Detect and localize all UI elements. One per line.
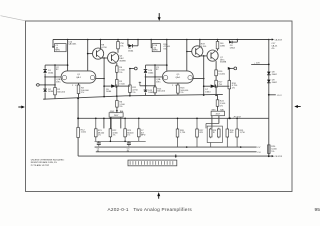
rail tap label	[229, 117, 231, 119]
wire clamp top channel 2	[146, 64, 167, 66]
wire left riser	[77, 98, 79, 127]
svg-text:MFD: MFD	[55, 50, 60, 52]
svg-text:5%: 5%	[120, 46, 123, 48]
right registration arrow	[294, 105, 300, 108]
wire bottom row bus	[95, 140, 146, 142]
bottom center registration arrow	[157, 192, 160, 199]
junction tick	[175, 154, 177, 158]
svg-text:DEC: DEC	[56, 81, 61, 83]
svg-text:3639B: 3639B	[220, 62, 227, 64]
svg-text:+ 10V: + 10V	[254, 63, 260, 65]
wire R9 to Q3 collector	[117, 49, 119, 53]
svg-text:1%: 1%	[232, 88, 235, 90]
resistor bottom row C7	[138, 118, 140, 129]
svg-text:1,750: 1,750	[180, 132, 186, 134]
svg-text:CA XXX: CA XXX	[275, 39, 283, 42]
capacitor C1	[53, 40, 55, 47]
scan artifact line top-left	[1, 16, 26, 21]
svg-text:QA-1: QA-1	[76, 76, 82, 79]
svg-text:1,750: 1,750	[240, 132, 246, 134]
svg-text:95: 95	[315, 207, 320, 213]
svg-text:4,700: 4,700	[101, 47, 107, 49]
wire oval Q1 top-right lead	[87, 40, 89, 71]
resistor R12	[77, 128, 80, 138]
wire Q2 emitter column	[103, 58, 105, 97]
svg-text:51,000: 51,000	[218, 73, 225, 75]
capacitor C5	[127, 142, 131, 144]
resistor network box	[207, 126, 222, 142]
ground tab label	[269, 155, 272, 157]
svg-text:1%: 1%	[127, 135, 130, 137]
diode D7	[204, 85, 211, 87]
diode D5	[104, 85, 111, 87]
Q1 right section symbol	[90, 75, 94, 79]
transistor Q3	[108, 52, 119, 63]
wire D3 node	[232, 41, 237, 43]
svg-text:1%: 1%	[132, 92, 135, 94]
resistor R3	[78, 83, 80, 85]
resistor R30	[226, 129, 229, 137]
svg-text:D664: D664	[48, 73, 54, 75]
wire -15V stub	[269, 94, 276, 96]
left registration arrow	[18, 106, 25, 109]
svg-text:D664: D664	[148, 73, 154, 75]
svg-text:4: 4	[175, 85, 176, 87]
wire bottom rail C	[96, 151, 257, 153]
resistor bottom row R22	[109, 118, 111, 129]
resistor R16 column Q7 emitter	[215, 61, 217, 70]
svg-text:MFD: MFD	[141, 135, 146, 137]
wire +10V top rail	[53, 39, 269, 41]
Q5 right section symbol	[188, 75, 192, 79]
diode D15	[145, 86, 147, 90]
schematic border frame	[26, 21, 293, 192]
wire R14 to Q7 collector	[217, 49, 219, 51]
wire pot R7 leads	[110, 117, 112, 128]
wire Q6 emitter column	[203, 56, 205, 95]
svg-text:CA.0061: CA.0061	[68, 43, 77, 46]
svg-text:D664: D664	[48, 91, 54, 93]
resistor R26	[176, 129, 179, 137]
wire input channel 1	[39, 84, 55, 86]
svg-text:1%: 1%	[81, 92, 84, 94]
wire oval Q5 top-left lead	[166, 40, 168, 71]
diode D2	[44, 85, 46, 89]
svg-text:PCTS ARE 1/8 TRP: PCTS ARE 1/8 TRP	[31, 164, 50, 167]
svg-text:4: 4	[75, 85, 76, 87]
resistor bottom row R21	[95, 118, 97, 129]
wire Q2 emitter to Q3 base node	[101, 57, 108, 59]
wire ground rail D	[78, 155, 269, 157]
resistor R29	[218, 129, 221, 137]
resistor R17	[215, 76, 217, 81]
top center registration arrow	[158, 13, 161, 21]
svg-text:3639B: 3639B	[119, 61, 126, 63]
dual transistor Q1 QA-1 oval	[61, 71, 96, 83]
wire Q6 emitter to Q7 base	[200, 55, 207, 57]
svg-text:4%: 4%	[271, 48, 274, 50]
svg-text:UNLESS OTHERWISE INDICATED:: UNLESS OTHERWISE INDICATED:	[31, 158, 65, 161]
resistor R27	[196, 129, 199, 137]
Q5 left section symbol	[163, 75, 167, 79]
wire long horizontal rail	[78, 117, 269, 119]
resistor R2	[54, 65, 56, 87]
resistor R9	[117, 40, 119, 42]
wire ground rail mid	[43, 94, 223, 99]
wire oval output to Q2 emitter node	[96, 78, 104, 80]
resistor R20	[268, 145, 271, 154]
svg-text:D664: D664	[205, 91, 211, 93]
input terminal channel 2	[139, 82, 141, 86]
svg-text:D662: D662	[272, 74, 278, 76]
test point terminal channel 1	[130, 68, 134, 70]
wire +10V stub	[251, 63, 269, 65]
svg-text:560,000: 560,000	[57, 91, 66, 93]
resistor R11	[129, 69, 131, 86]
transistor Q2	[100, 40, 102, 50]
wire oval Q1 top-left lead	[67, 40, 69, 71]
input terminal channel 1	[37, 84, 40, 87]
svg-text:D664: D664	[106, 91, 112, 93]
Q1 left section symbol	[62, 75, 66, 79]
module edge connector strip	[128, 160, 177, 166]
transistor Q7	[207, 50, 218, 61]
svg-text:D664: D664	[230, 48, 236, 50]
dual transistor Q5 QA-1 oval	[162, 71, 193, 83]
svg-text:5%: 5%	[119, 106, 122, 108]
svg-text:A202-0-1 Two Analog Preampli: A202-0-1 Two Analog Preamplifiers	[108, 207, 193, 212]
diode D6	[127, 40, 129, 46]
connector tab label CA	[269, 39, 272, 41]
svg-text:D664: D664	[148, 92, 154, 94]
resistor R14	[217, 40, 219, 42]
wire D5 to R11 node	[117, 85, 130, 87]
svg-text:-15 V: -15 V	[277, 95, 283, 97]
svg-text:D664: D664	[128, 51, 134, 53]
resistor R13	[177, 83, 179, 85]
svg-text:5%: 5%	[271, 151, 274, 153]
diode D3	[228, 40, 230, 41]
wire oval Q5 output node	[193, 78, 203, 80]
svg-text:2: 2	[172, 85, 173, 87]
diode D8	[267, 72, 271, 75]
svg-text:RESISTORS ARE 1/4W; 5%: RESISTORS ARE 1/4W; 5%	[31, 161, 57, 164]
test point terminal channel 2	[229, 67, 233, 69]
resistor R15	[154, 65, 156, 87]
wire right bus riser	[268, 40, 270, 157]
transistor Q6	[199, 40, 201, 47]
wire D6 to node	[133, 45, 138, 47]
svg-text:7,500: 7,500	[119, 83, 125, 85]
svg-text:CV: CV	[257, 147, 261, 149]
resistor R4 column Q3 emitter	[116, 63, 118, 66]
svg-text:2: 2	[72, 85, 73, 87]
diode D1	[44, 65, 46, 69]
svg-text:560,000: 560,000	[157, 91, 166, 93]
svg-text:5%: 5%	[163, 49, 166, 51]
svg-text:CU: CU	[257, 152, 261, 154]
wire Q6 base	[187, 51, 192, 53]
svg-text:1%: 1%	[98, 135, 101, 137]
svg-text:DEC: DEC	[156, 81, 161, 83]
resistor R28	[209, 129, 212, 137]
resistor bottom row R23	[124, 118, 126, 129]
capacitor C16	[151, 40, 152, 48]
svg-text:5%: 5%	[119, 72, 122, 74]
wire oval input lead channel 2	[146, 76, 163, 78]
wire oval input lead channel 1	[45, 76, 61, 78]
svg-text:1%: 1%	[113, 135, 116, 137]
svg-text:CB XXX: CB XXX	[275, 156, 283, 158]
wire D2 to ground rail	[43, 92, 45, 99]
svg-text:4,700: 4,700	[201, 46, 207, 48]
svg-text:1,500: 1,500	[81, 132, 87, 134]
wire oval Q5 top-right lead	[186, 40, 188, 71]
svg-text:1%: 1%	[180, 92, 183, 94]
resistor R6	[116, 96, 118, 100]
resistor R6B channel 2	[217, 95, 219, 100]
svg-text:QA-1: QA-1	[175, 76, 181, 79]
resistor R31	[236, 129, 239, 137]
wire input channel 2	[140, 85, 155, 87]
resistor R5	[116, 80, 119, 87]
svg-text:5%: 5%	[220, 106, 223, 108]
wire Q2 base	[88, 53, 93, 55]
diode D14	[145, 65, 147, 69]
wire pot R25 leads	[211, 116, 213, 129]
resistor R18	[228, 68, 230, 80]
wire clamp top channel 1	[45, 64, 68, 66]
wire bottom rail B	[95, 146, 257, 148]
svg-text:D662: D662	[272, 82, 278, 84]
svg-text:MFD: MFD	[153, 50, 158, 52]
capacitor C4	[97, 142, 101, 144]
diode D9	[267, 80, 271, 83]
